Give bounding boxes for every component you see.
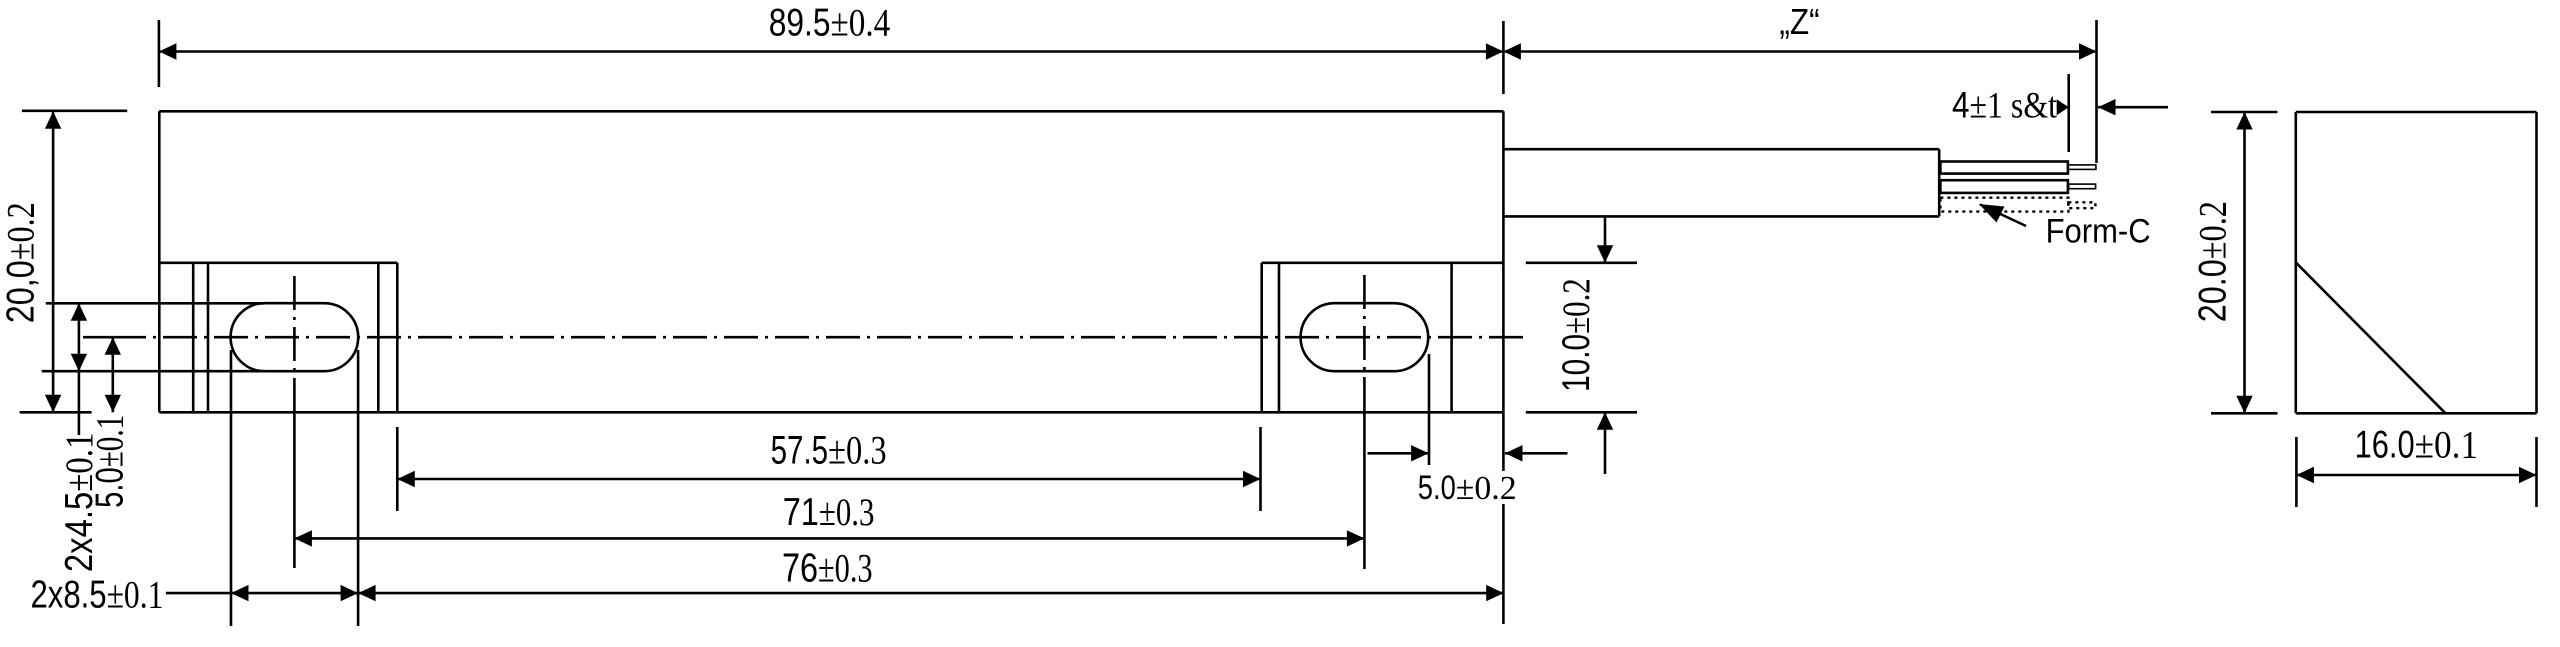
- svg-text:±0.2: ±0.2: [0, 202, 42, 260]
- svg-text:16.0: 16.0: [2355, 424, 2415, 467]
- svg-text:„Z“: „Z“: [1779, 1, 1819, 42]
- svg-text:76: 76: [782, 544, 818, 590]
- svg-text:5.0: 5.0: [89, 467, 132, 508]
- svg-text:71: 71: [783, 491, 819, 534]
- svg-text:57.5: 57.5: [771, 429, 829, 473]
- svg-text:±0.4: ±0.4: [831, 2, 891, 45]
- svg-text:20.0: 20.0: [2192, 259, 2235, 322]
- svg-text:±0.3: ±0.3: [828, 428, 887, 473]
- svg-text:±0.1: ±0.1: [2415, 424, 2479, 467]
- svg-text:±0.1: ±0.1: [89, 415, 132, 468]
- svg-text:±0.2: ±0.2: [1456, 470, 1517, 507]
- svg-text:5.0: 5.0: [1418, 469, 1456, 507]
- svg-text:4: 4: [1952, 84, 1970, 126]
- svg-text:2x8.5: 2x8.5: [31, 574, 107, 617]
- svg-text:10.0: 10.0: [1555, 334, 1598, 392]
- svg-text:±0.1: ±0.1: [107, 574, 164, 617]
- svg-text:Form-C: Form-C: [2046, 212, 2151, 250]
- svg-text:±1 s&t: ±1 s&t: [1970, 86, 2058, 127]
- svg-text:±0.2: ±0.2: [2192, 201, 2235, 259]
- svg-text:±0.3: ±0.3: [819, 491, 875, 534]
- svg-text:20,0: 20,0: [0, 260, 42, 323]
- svg-text:±0.2: ±0.2: [1555, 278, 1598, 334]
- svg-text:89.5: 89.5: [769, 2, 831, 45]
- svg-text:±0.3: ±0.3: [818, 545, 873, 590]
